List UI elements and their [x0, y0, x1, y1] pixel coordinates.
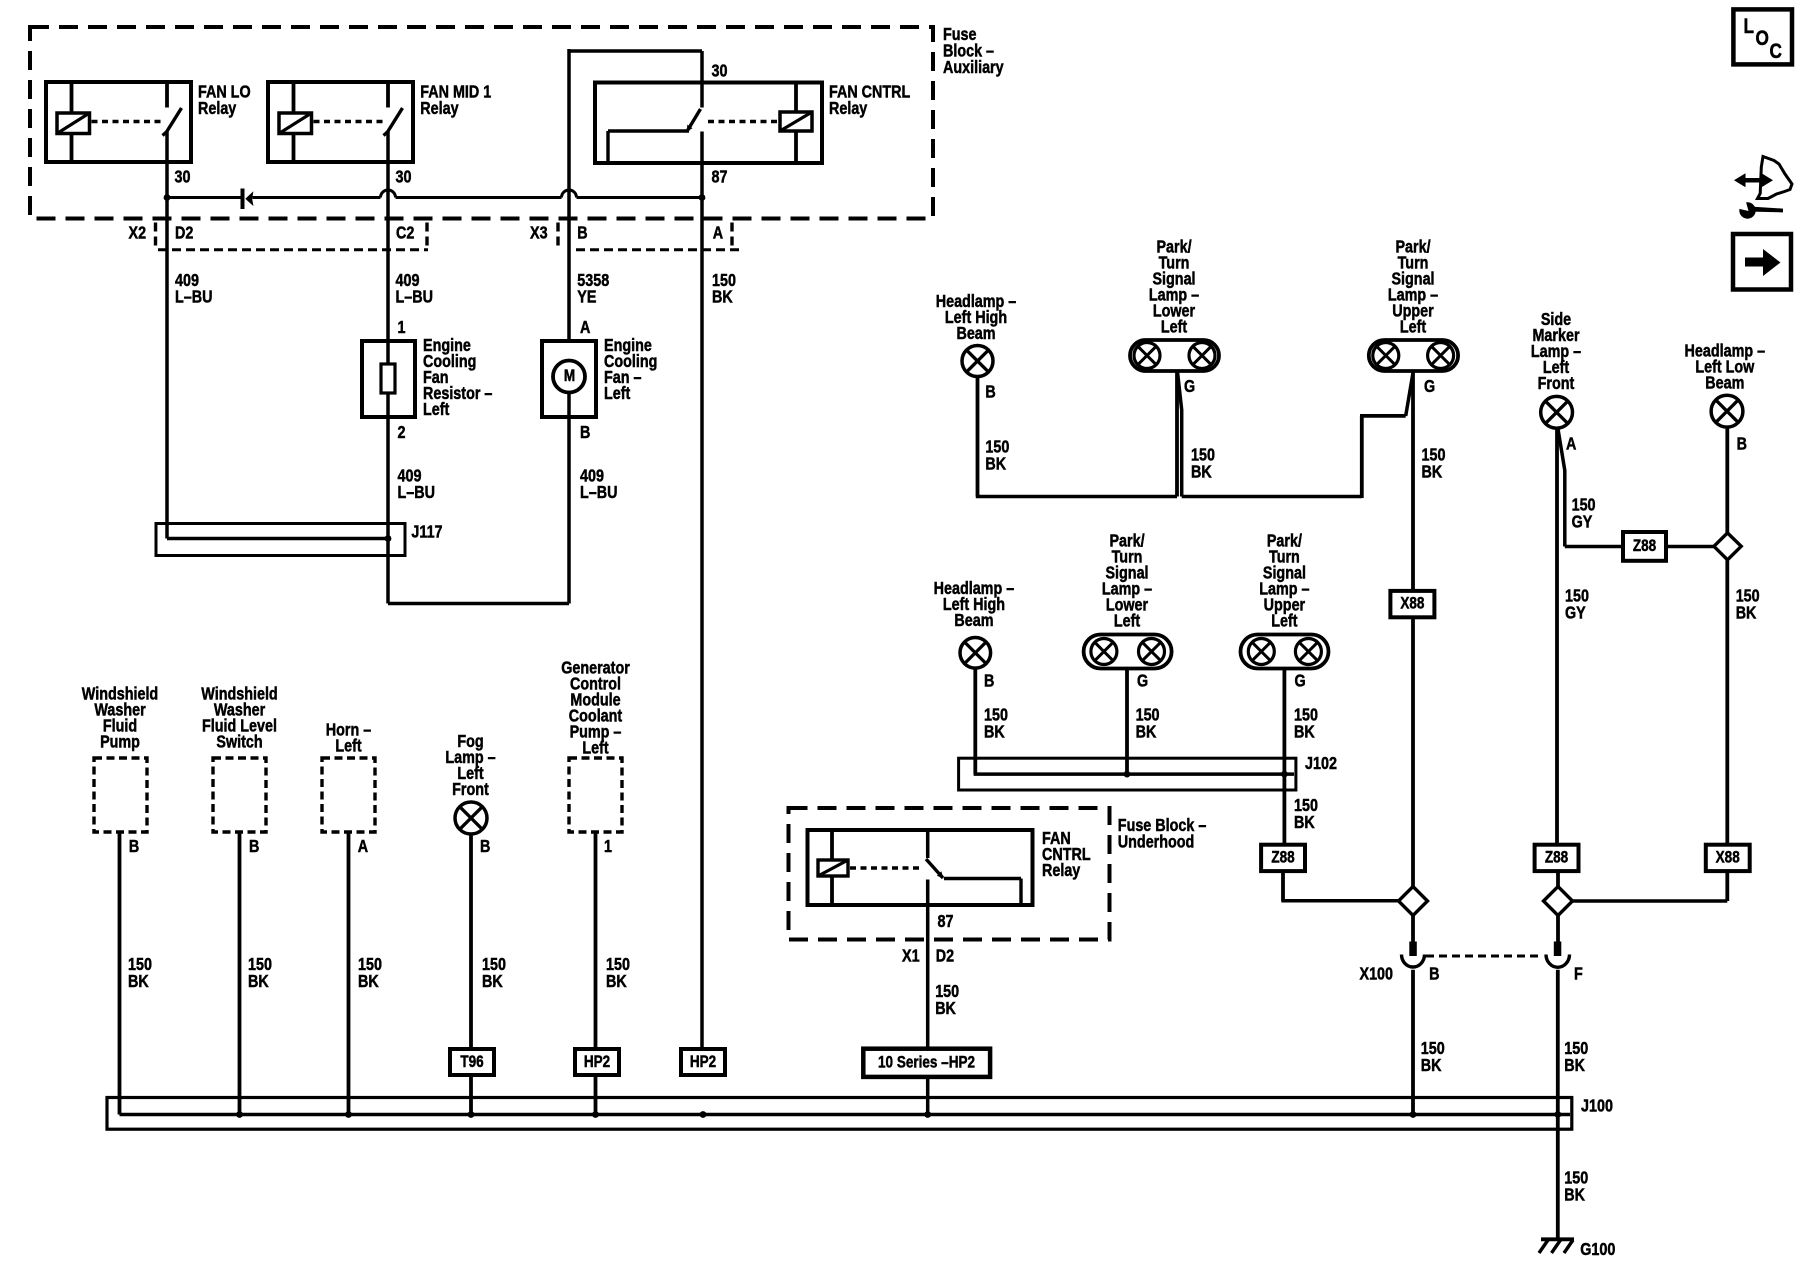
- svg-text:BK: BK: [482, 973, 503, 992]
- svg-text:D2: D2: [175, 224, 193, 243]
- svg-text:YE: YE: [577, 288, 596, 307]
- svg-text:BK: BK: [1422, 463, 1443, 482]
- svg-text:BK: BK: [1136, 723, 1157, 742]
- svg-text:BK: BK: [128, 973, 149, 992]
- svg-text:150: 150: [1294, 797, 1318, 816]
- svg-text:Left: Left: [1271, 612, 1298, 631]
- svg-text:BK: BK: [935, 1000, 956, 1019]
- svg-text:30: 30: [396, 168, 412, 187]
- svg-text:30: 30: [175, 168, 191, 187]
- svg-text:Z88: Z88: [1271, 848, 1294, 867]
- svg-text:150: 150: [1564, 1040, 1588, 1059]
- svg-text:L–BU: L–BU: [398, 484, 435, 503]
- svg-text:G: G: [1137, 672, 1148, 691]
- svg-text:B: B: [580, 424, 590, 443]
- svg-text:L: L: [1744, 15, 1755, 38]
- svg-text:87: 87: [712, 168, 728, 187]
- svg-text:B: B: [984, 672, 994, 691]
- svg-text:1: 1: [604, 838, 612, 857]
- svg-text:10 Series –HP2: 10 Series –HP2: [878, 1053, 975, 1072]
- svg-text:150: 150: [482, 956, 506, 975]
- svg-text:Front: Front: [452, 781, 489, 800]
- svg-text:150: 150: [1422, 446, 1446, 465]
- svg-text:GY: GY: [1565, 604, 1586, 623]
- svg-text:B: B: [1429, 965, 1439, 984]
- svg-text:T96: T96: [460, 1053, 483, 1072]
- svg-text:BK: BK: [1564, 1057, 1585, 1076]
- svg-text:30: 30: [712, 62, 728, 81]
- svg-text:87: 87: [938, 913, 954, 932]
- svg-text:O: O: [1756, 27, 1769, 50]
- svg-text:Z88: Z88: [1633, 537, 1656, 556]
- svg-text:Left: Left: [604, 385, 631, 404]
- svg-text:A: A: [358, 838, 369, 857]
- svg-text:L–BU: L–BU: [580, 484, 617, 503]
- svg-text:J117: J117: [411, 523, 442, 542]
- svg-text:BK: BK: [1564, 1186, 1585, 1205]
- svg-text:Left: Left: [582, 739, 609, 758]
- svg-text:GY: GY: [1572, 513, 1593, 532]
- svg-text:X3: X3: [530, 224, 548, 243]
- svg-text:150: 150: [358, 956, 382, 975]
- svg-text:1: 1: [398, 319, 406, 338]
- svg-text:BK: BK: [1294, 723, 1315, 742]
- svg-text:J100: J100: [1581, 1097, 1613, 1116]
- svg-text:150: 150: [935, 983, 959, 1002]
- svg-text:A: A: [1566, 435, 1577, 454]
- svg-text:150: 150: [985, 438, 1009, 457]
- svg-text:HP2: HP2: [584, 1053, 610, 1072]
- svg-text:F: F: [1574, 965, 1583, 984]
- svg-text:150: 150: [1136, 706, 1160, 725]
- svg-text:J102: J102: [1305, 755, 1337, 774]
- svg-text:150: 150: [1421, 1040, 1445, 1059]
- svg-text:Relay: Relay: [1042, 862, 1080, 881]
- svg-text:Beam: Beam: [954, 612, 993, 631]
- svg-text:Relay: Relay: [198, 100, 236, 119]
- svg-text:Z88: Z88: [1545, 848, 1568, 867]
- svg-text:BK: BK: [1294, 814, 1315, 833]
- svg-text:2: 2: [398, 424, 406, 443]
- svg-text:Relay: Relay: [420, 100, 458, 119]
- svg-text:150: 150: [1294, 706, 1318, 725]
- svg-text:C2: C2: [396, 224, 414, 243]
- svg-text:Left: Left: [335, 737, 362, 756]
- svg-text:150: 150: [1191, 446, 1215, 465]
- svg-text:Switch: Switch: [216, 733, 262, 752]
- svg-text:D2: D2: [936, 947, 954, 966]
- svg-text:150: 150: [606, 956, 630, 975]
- svg-text:B: B: [249, 838, 259, 857]
- svg-text:B: B: [129, 838, 139, 857]
- svg-text:B: B: [1737, 435, 1747, 454]
- svg-text:G100: G100: [1580, 1241, 1615, 1260]
- svg-text:BK: BK: [248, 973, 269, 992]
- svg-text:G: G: [1424, 378, 1435, 397]
- svg-text:C: C: [1770, 40, 1783, 63]
- svg-text:BK: BK: [358, 973, 379, 992]
- svg-text:Left: Left: [1114, 612, 1141, 631]
- svg-text:B: B: [480, 838, 490, 857]
- svg-text:Relay: Relay: [829, 100, 867, 119]
- svg-text:G: G: [1184, 378, 1195, 397]
- svg-text:Auxiliary: Auxiliary: [943, 59, 1004, 78]
- svg-text:X1: X1: [902, 947, 920, 966]
- svg-text:BK: BK: [606, 973, 627, 992]
- svg-text:B: B: [577, 224, 587, 243]
- svg-text:X88: X88: [1716, 848, 1740, 867]
- svg-text:X88: X88: [1400, 594, 1424, 613]
- svg-text:G: G: [1295, 672, 1306, 691]
- svg-text:150: 150: [1564, 1169, 1588, 1188]
- svg-text:Front: Front: [1538, 375, 1575, 394]
- svg-text:Left: Left: [423, 401, 450, 420]
- svg-text:L–BU: L–BU: [396, 288, 433, 307]
- svg-text:Beam: Beam: [1705, 374, 1744, 393]
- svg-text:M: M: [564, 367, 575, 386]
- svg-text:150: 150: [984, 706, 1008, 725]
- svg-text:A: A: [580, 319, 591, 338]
- svg-text:Underhood: Underhood: [1118, 833, 1195, 852]
- svg-text:BK: BK: [1191, 463, 1212, 482]
- svg-text:BK: BK: [1736, 604, 1757, 623]
- svg-text:150: 150: [128, 956, 152, 975]
- svg-text:BK: BK: [1421, 1057, 1442, 1076]
- svg-text:Beam: Beam: [956, 325, 995, 344]
- svg-text:BK: BK: [984, 723, 1005, 742]
- svg-text:150: 150: [1572, 496, 1596, 515]
- svg-text:X100: X100: [1360, 965, 1394, 984]
- svg-text:Left: Left: [1400, 318, 1427, 337]
- svg-text:X2: X2: [129, 224, 147, 243]
- svg-text:150: 150: [248, 956, 272, 975]
- svg-text:BK: BK: [712, 288, 733, 307]
- svg-text:A: A: [713, 224, 724, 243]
- svg-text:HP2: HP2: [690, 1053, 716, 1072]
- svg-text:150: 150: [1736, 587, 1760, 606]
- svg-text:BK: BK: [985, 455, 1006, 474]
- svg-text:B: B: [985, 383, 995, 402]
- svg-text:L–BU: L–BU: [175, 288, 212, 307]
- svg-text:Pump: Pump: [100, 733, 140, 752]
- svg-text:150: 150: [1565, 587, 1589, 606]
- svg-text:Left: Left: [1161, 318, 1188, 337]
